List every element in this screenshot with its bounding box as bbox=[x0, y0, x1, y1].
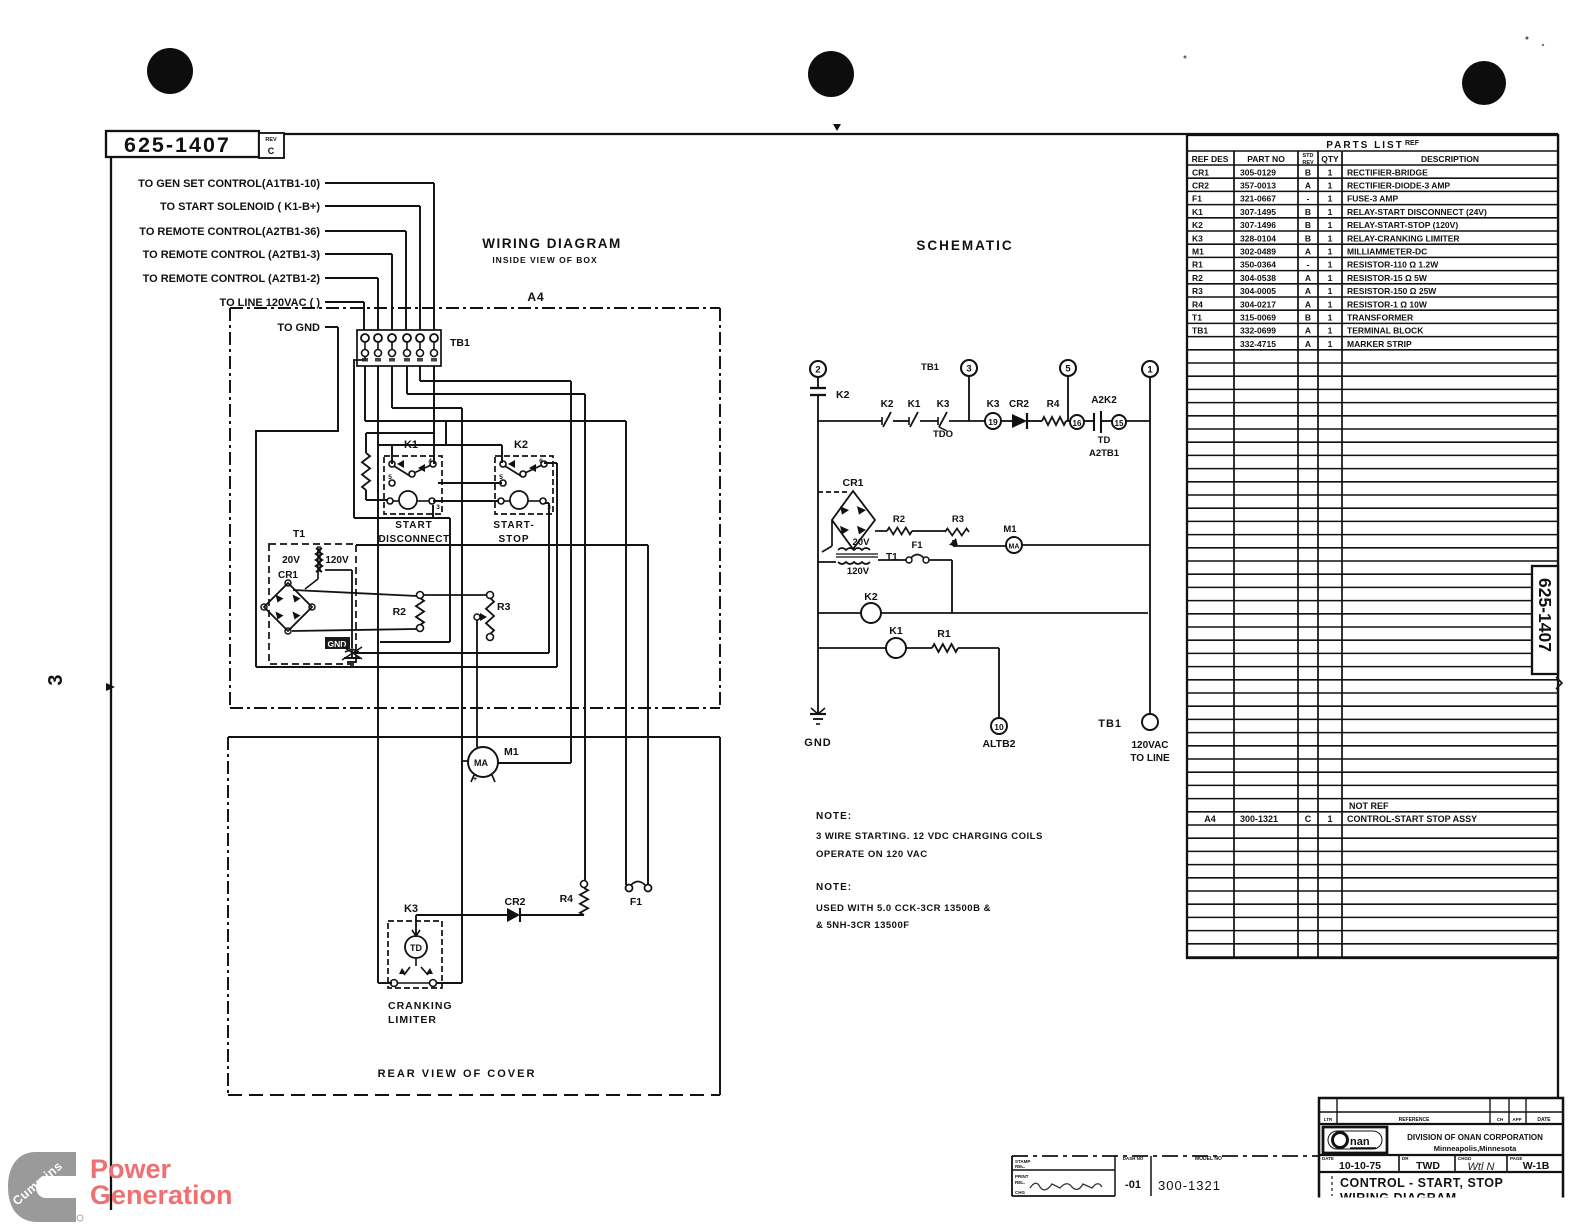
svg-text:300-1321: 300-1321 bbox=[1240, 814, 1278, 824]
svg-text:CR1: CR1 bbox=[1192, 167, 1209, 177]
svg-text:W-1B: W-1B bbox=[1523, 1160, 1550, 1172]
svg-text:3: 3 bbox=[45, 674, 67, 685]
svg-text:328-0104: 328-0104 bbox=[1240, 233, 1276, 243]
svg-text:A2K2: A2K2 bbox=[1091, 395, 1117, 406]
svg-text:REAR VIEW OF COVER: REAR VIEW OF COVER bbox=[378, 1068, 537, 1080]
svg-text:TO GND: TO GND bbox=[277, 322, 320, 334]
svg-text:C: C bbox=[268, 146, 275, 156]
svg-text:ALTB2: ALTB2 bbox=[982, 738, 1015, 750]
svg-text:1: 1 bbox=[1328, 194, 1333, 204]
svg-text:NOTE:: NOTE: bbox=[816, 811, 852, 822]
svg-text:TO START SOLENOID ( K1-B+): TO START SOLENOID ( K1-B+) bbox=[160, 201, 320, 213]
svg-text:TB1: TB1 bbox=[1192, 326, 1208, 336]
svg-text:DIVISION OF ONAN CORPORATION: DIVISION OF ONAN CORPORATION bbox=[1407, 1133, 1543, 1142]
svg-text:T1: T1 bbox=[293, 528, 305, 540]
svg-text:Wtl N: Wtl N bbox=[1468, 1161, 1495, 1173]
svg-text:RECTIFIER-DIODE-3 AMP: RECTIFIER-DIODE-3 AMP bbox=[1347, 181, 1450, 191]
svg-text:CR1: CR1 bbox=[842, 477, 863, 489]
svg-text:T1: T1 bbox=[886, 552, 898, 563]
svg-text:315-0069: 315-0069 bbox=[1240, 313, 1276, 323]
svg-text:TO REMOTE CONTROL (A2TB1-3): TO REMOTE CONTROL (A2TB1-3) bbox=[143, 249, 321, 261]
svg-text:OPERATE ON 120 VAC: OPERATE ON 120 VAC bbox=[816, 849, 928, 860]
svg-text:K2: K2 bbox=[514, 439, 528, 451]
svg-text:3: 3 bbox=[436, 504, 440, 511]
svg-text:NOTE:: NOTE: bbox=[816, 882, 852, 893]
svg-text:MA: MA bbox=[474, 758, 488, 768]
svg-text:F1: F1 bbox=[1192, 194, 1202, 204]
svg-text:RESISTOR-150 Ω 25W: RESISTOR-150 Ω 25W bbox=[1347, 286, 1437, 296]
svg-text:R2: R2 bbox=[893, 514, 905, 525]
svg-text:B: B bbox=[1305, 233, 1311, 243]
svg-text:19: 19 bbox=[988, 417, 998, 427]
svg-text:RECTIFIER-BRIDGE: RECTIFIER-BRIDGE bbox=[1347, 167, 1428, 177]
svg-text:TDO: TDO bbox=[933, 429, 953, 440]
svg-text:REL.: REL. bbox=[1015, 1164, 1025, 1169]
svg-text:B: B bbox=[1305, 313, 1311, 323]
svg-text:K2: K2 bbox=[1192, 220, 1203, 230]
svg-text:WIRING DIAGRAM: WIRING DIAGRAM bbox=[482, 236, 622, 251]
svg-text:1: 1 bbox=[1328, 299, 1333, 309]
svg-text:CR2: CR2 bbox=[1009, 399, 1029, 410]
svg-text:A: A bbox=[1305, 339, 1311, 349]
svg-text:120VAC: 120VAC bbox=[1131, 740, 1168, 751]
svg-text:NOT REF: NOT REF bbox=[1349, 801, 1389, 811]
svg-text:R3: R3 bbox=[952, 514, 964, 525]
svg-text:A: A bbox=[1305, 273, 1311, 283]
svg-text:TB1: TB1 bbox=[1098, 718, 1122, 730]
svg-text:K2: K2 bbox=[836, 389, 850, 401]
svg-text:USED WITH 5.0 CCK-3CR 13500B &: USED WITH 5.0 CCK-3CR 13500B & bbox=[816, 903, 991, 914]
svg-text:REV: REV bbox=[265, 137, 277, 143]
svg-text:MILLIAMMETER-DC: MILLIAMMETER-DC bbox=[1347, 247, 1427, 257]
svg-text:START: START bbox=[395, 520, 433, 531]
svg-text:APP: APP bbox=[1512, 1117, 1521, 1122]
svg-text:PAGE: PAGE bbox=[1510, 1156, 1522, 1161]
svg-text:TRANSFORMER: TRANSFORMER bbox=[1347, 313, 1413, 323]
svg-text:300-1321: 300-1321 bbox=[1158, 1178, 1221, 1193]
svg-text:R2: R2 bbox=[1192, 273, 1203, 283]
svg-text:START-: START- bbox=[493, 520, 534, 531]
svg-text:INSIDE VIEW OF BOX: INSIDE VIEW OF BOX bbox=[492, 255, 597, 265]
svg-text:20V: 20V bbox=[853, 537, 871, 548]
svg-text:1: 1 bbox=[1328, 339, 1333, 349]
svg-text:nan: nan bbox=[1350, 1136, 1370, 1148]
svg-text:R4: R4 bbox=[1047, 399, 1060, 410]
svg-text:TO GEN SET CONTROL(A1TB1-10): TO GEN SET CONTROL(A1TB1-10) bbox=[138, 178, 320, 190]
svg-text:TB1: TB1 bbox=[450, 337, 470, 349]
svg-text:321-0667: 321-0667 bbox=[1240, 194, 1276, 204]
svg-text:LIMITER: LIMITER bbox=[388, 1014, 437, 1026]
svg-text:TB1: TB1 bbox=[921, 362, 940, 373]
svg-text:RELAY-CRANKING LIMITER: RELAY-CRANKING LIMITER bbox=[1347, 233, 1460, 243]
svg-text:304-0217: 304-0217 bbox=[1240, 299, 1276, 309]
svg-text:TO LINE: TO LINE bbox=[1130, 753, 1170, 764]
svg-text:TERMINAL BLOCK: TERMINAL BLOCK bbox=[1347, 326, 1424, 336]
svg-text:A: A bbox=[1305, 181, 1311, 191]
svg-text:15: 15 bbox=[1115, 419, 1124, 428]
svg-text:304-0538: 304-0538 bbox=[1240, 273, 1276, 283]
svg-text:K3: K3 bbox=[404, 903, 418, 915]
svg-text:357-0013: 357-0013 bbox=[1240, 181, 1276, 191]
svg-text:CRANKING: CRANKING bbox=[388, 1000, 453, 1012]
svg-text:304-0005: 304-0005 bbox=[1240, 286, 1276, 296]
svg-text:TO REMOTE CONTROL (A2TB1-2): TO REMOTE CONTROL (A2TB1-2) bbox=[143, 273, 321, 285]
svg-text:332-4715: 332-4715 bbox=[1240, 339, 1276, 349]
svg-text:K2: K2 bbox=[864, 591, 878, 603]
svg-text:120V: 120V bbox=[325, 555, 349, 566]
svg-text:REF: REF bbox=[1405, 140, 1420, 147]
svg-text:RESISTOR-15 Ω 5W: RESISTOR-15 Ω 5W bbox=[1347, 273, 1428, 283]
svg-text:350-0364: 350-0364 bbox=[1240, 260, 1276, 270]
svg-text:B: B bbox=[1305, 220, 1311, 230]
svg-text:DATE: DATE bbox=[1537, 1117, 1551, 1123]
svg-text:B: B bbox=[1305, 167, 1311, 177]
svg-text:302-0489: 302-0489 bbox=[1240, 247, 1276, 257]
svg-text:A: A bbox=[1305, 247, 1311, 257]
svg-text:1: 1 bbox=[1328, 167, 1333, 177]
svg-text:FUSE-3 AMP: FUSE-3 AMP bbox=[1347, 194, 1398, 204]
svg-text:+: + bbox=[473, 776, 477, 783]
svg-text:MA: MA bbox=[1009, 544, 1020, 551]
svg-text:305-0129: 305-0129 bbox=[1240, 167, 1276, 177]
svg-text:K2: K2 bbox=[881, 399, 894, 410]
svg-text:CONTROL-START STOP ASSY: CONTROL-START STOP ASSY bbox=[1347, 814, 1477, 824]
svg-text:20V: 20V bbox=[282, 555, 300, 566]
svg-text:1: 1 bbox=[1328, 313, 1333, 323]
svg-text:K1: K1 bbox=[889, 625, 903, 637]
svg-text:-: - bbox=[1307, 260, 1310, 270]
svg-text:1: 1 bbox=[1328, 260, 1333, 270]
svg-text:K3: K3 bbox=[987, 399, 1000, 410]
svg-text:1: 1 bbox=[1328, 220, 1333, 230]
svg-text:CHG: CHG bbox=[1015, 1190, 1025, 1195]
svg-text:Minneapolis,Minnesota: Minneapolis,Minnesota bbox=[1434, 1144, 1517, 1153]
svg-text:3 WIRE STARTING. 12 VDC CHARG: 3 WIRE STARTING. 12 VDC CHARGING COILS bbox=[816, 831, 1043, 842]
svg-text:DESCRIPTION: DESCRIPTION bbox=[1421, 154, 1479, 164]
svg-text:R1: R1 bbox=[937, 628, 951, 640]
svg-text:1: 1 bbox=[1328, 207, 1333, 217]
svg-text:3: 3 bbox=[966, 364, 971, 375]
svg-text:PART NO: PART NO bbox=[1247, 154, 1285, 164]
svg-text:1: 1 bbox=[1328, 286, 1333, 296]
svg-text:10-10-75: 10-10-75 bbox=[1339, 1160, 1381, 1172]
svg-text:QTY: QTY bbox=[1321, 154, 1339, 164]
svg-text:PARTS LIST: PARTS LIST bbox=[1326, 140, 1404, 151]
svg-text:307-1496: 307-1496 bbox=[1240, 220, 1276, 230]
svg-text:CR2: CR2 bbox=[504, 896, 525, 908]
svg-text:DR: DR bbox=[1402, 1156, 1409, 1161]
svg-text:-: - bbox=[1307, 194, 1310, 204]
svg-text:CONTROL - START, STOP: CONTROL - START, STOP bbox=[1340, 1176, 1503, 1190]
svg-text:K1: K1 bbox=[1192, 207, 1203, 217]
svg-text:PRINT: PRINT bbox=[1015, 1174, 1029, 1179]
svg-text:1: 1 bbox=[1328, 247, 1333, 257]
svg-text:LTR: LTR bbox=[1324, 1117, 1333, 1122]
svg-text:K1: K1 bbox=[404, 439, 418, 451]
svg-text:K3: K3 bbox=[1192, 233, 1203, 243]
svg-text:RELAY-START-STOP (120V): RELAY-START-STOP (120V) bbox=[1347, 220, 1458, 230]
svg-text:M1: M1 bbox=[504, 746, 519, 758]
svg-text:TWD: TWD bbox=[1416, 1160, 1440, 1172]
svg-text:RELAY-START DISCONNECT (24V): RELAY-START DISCONNECT (24V) bbox=[1347, 207, 1487, 217]
svg-text:625-1407: 625-1407 bbox=[1535, 578, 1555, 652]
svg-text:-01: -01 bbox=[1125, 1179, 1141, 1191]
svg-text:STD: STD bbox=[1303, 153, 1314, 159]
svg-text:R3: R3 bbox=[1192, 286, 1203, 296]
svg-text:REF DES: REF DES bbox=[1192, 154, 1229, 164]
svg-text:A4: A4 bbox=[527, 290, 544, 304]
svg-text:R3: R3 bbox=[497, 601, 511, 613]
svg-text:RESISTOR-110 Ω 1.2W: RESISTOR-110 Ω 1.2W bbox=[1347, 260, 1439, 270]
svg-text:625-1407: 625-1407 bbox=[124, 133, 231, 157]
svg-text:1: 1 bbox=[1328, 233, 1333, 243]
svg-text:5: 5 bbox=[1065, 364, 1071, 375]
svg-text:A: A bbox=[1305, 326, 1311, 336]
svg-text:K1: K1 bbox=[908, 399, 921, 410]
svg-text:C: C bbox=[1305, 814, 1312, 824]
svg-text:DASH NO: DASH NO bbox=[1123, 1156, 1144, 1161]
svg-text:MODEL NO: MODEL NO bbox=[1195, 1156, 1222, 1162]
svg-text:1: 1 bbox=[1328, 326, 1333, 336]
svg-text:CH: CH bbox=[1497, 1117, 1504, 1122]
svg-text:120V: 120V bbox=[847, 566, 870, 577]
svg-text:TD: TD bbox=[1098, 435, 1111, 446]
svg-text:1: 1 bbox=[1327, 814, 1332, 824]
svg-text:R4: R4 bbox=[560, 893, 574, 905]
svg-text:& 5NH-3CR 13500F: & 5NH-3CR 13500F bbox=[816, 920, 910, 931]
svg-text:332-0699: 332-0699 bbox=[1240, 326, 1276, 336]
svg-text:307-1495: 307-1495 bbox=[1240, 207, 1276, 217]
svg-text:1: 1 bbox=[1328, 273, 1333, 283]
svg-text:STOP: STOP bbox=[498, 534, 529, 545]
svg-text:TO REMOTE CONTROL(A2TB1-36): TO REMOTE CONTROL(A2TB1-36) bbox=[139, 226, 320, 238]
svg-text:1: 1 bbox=[1328, 181, 1333, 191]
svg-text:GND: GND bbox=[804, 737, 831, 749]
svg-text:B: B bbox=[1305, 207, 1311, 217]
svg-text:10: 10 bbox=[994, 722, 1004, 732]
svg-text:RESISTOR-1 Ω 10W: RESISTOR-1 Ω 10W bbox=[1347, 299, 1428, 309]
svg-text:R2: R2 bbox=[393, 606, 407, 618]
svg-text:DATE: DATE bbox=[1322, 1156, 1334, 1161]
svg-text:MARKER STRIP: MARKER STRIP bbox=[1347, 339, 1412, 349]
svg-text:K3: K3 bbox=[937, 399, 950, 410]
svg-text:A2TB1: A2TB1 bbox=[1089, 448, 1120, 459]
svg-text:Generation: Generation bbox=[90, 1180, 233, 1210]
svg-text:F1: F1 bbox=[911, 540, 923, 551]
svg-text:A: A bbox=[1305, 299, 1311, 309]
svg-text:1: 1 bbox=[1147, 365, 1153, 376]
svg-text:2: 2 bbox=[815, 365, 820, 376]
svg-text:A4: A4 bbox=[1204, 814, 1216, 824]
svg-text:REL.: REL. bbox=[1015, 1180, 1025, 1185]
svg-text:R4: R4 bbox=[1192, 299, 1203, 309]
svg-text:R1: R1 bbox=[1192, 260, 1203, 270]
svg-text:REV: REV bbox=[1302, 160, 1314, 166]
svg-text:SCHEMATIC: SCHEMATIC bbox=[916, 238, 1013, 253]
svg-text:A: A bbox=[1305, 286, 1311, 296]
svg-text:DISCONNECT: DISCONNECT bbox=[378, 534, 449, 545]
svg-text:CR2: CR2 bbox=[1192, 181, 1209, 191]
svg-text:16: 16 bbox=[1073, 419, 1082, 428]
svg-text:TD: TD bbox=[410, 943, 422, 953]
svg-text:F1: F1 bbox=[630, 896, 642, 908]
svg-text:REFERENCE: REFERENCE bbox=[1399, 1117, 1431, 1123]
svg-text:M1: M1 bbox=[1003, 524, 1017, 535]
svg-text:T1: T1 bbox=[1192, 313, 1202, 323]
svg-text:M1: M1 bbox=[1192, 247, 1204, 257]
